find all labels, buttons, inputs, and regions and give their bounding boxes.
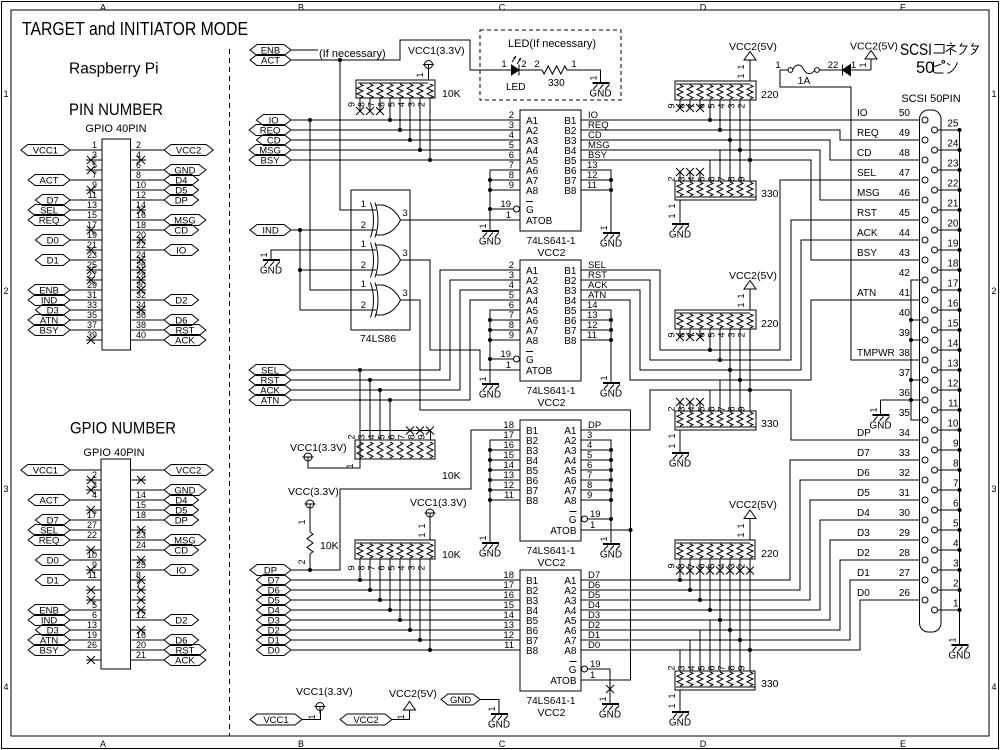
resistor R1 10K [297,510,313,570]
svg-text:2: 2 [667,176,677,181]
J2 row 20 right ACK [131,650,206,666]
J1 pin 28 NC [131,270,147,284]
svg-text:48: 48 [899,148,911,159]
svg-text:G: G [569,515,577,526]
svg-text:9: 9 [347,102,357,107]
RN5 NC pins 2 3 4 [667,168,705,182]
power VCC1(3.3V) label (RN3) [410,497,467,509]
svg-text:1: 1 [396,714,406,719]
wire RST to U2 A2 [291,280,520,380]
svg-text:330: 330 [761,188,779,200]
svg-text:6: 6 [707,176,717,181]
svg-text:1: 1 [736,302,746,307]
wire D0 to SCSI pin26 [581,600,920,650]
svg-text:50: 50 [899,108,911,119]
junction D2 pull-up [408,628,412,632]
label 330 (RN5) [761,188,779,200]
svg-text:ACK: ACK [175,335,195,346]
svg-text:10: 10 [136,180,146,190]
svg-text:220: 220 [761,89,779,101]
junction D0 pull-up [428,648,432,652]
J1 pin 21 NC [86,240,102,254]
label U2 B4 net ATN [588,290,606,301]
svg-text:23: 23 [87,250,97,260]
wire ACT to junction [291,59,340,61]
svg-text:20: 20 [136,640,146,650]
svg-text:REQ: REQ [39,535,60,546]
RN9 pins to D rows [667,580,751,671]
power VCC2 symbol (RN4) [744,52,756,61]
svg-text:7: 7 [136,580,141,590]
RN5 pins 5-9 to rows [697,120,751,182]
svg-text:9: 9 [737,176,747,181]
svg-text:2: 2 [136,140,141,150]
svg-text:ACK: ACK [857,228,878,239]
svg-text:6: 6 [377,565,387,570]
svg-text:9: 9 [509,330,514,341]
svg-text:37: 37 [87,320,97,330]
ground (LED) [589,75,612,99]
svg-text:38: 38 [899,348,911,359]
svg-text:14: 14 [947,339,959,350]
svg-text:B: B [298,3,304,13]
wire U4 G with cut [588,669,615,704]
wire ACK to U2 A3 [291,290,520,390]
svg-text:1: 1 [506,360,511,371]
tag D0 [256,645,291,657]
wire VCC2 to RN6 pin1 [736,289,750,310]
svg-text:38: 38 [136,320,146,330]
wire IO to SCSI pin50 [581,119,920,121]
LED dashed box [480,30,621,100]
connector J2 GPIO 40PIN body [101,459,131,669]
J2 row 11 right IO [131,560,199,576]
svg-text:220: 220 [761,318,779,330]
junction ATN pull-up [388,398,392,402]
tag D7 [256,575,291,587]
fuse F1 1A [780,65,842,74]
label SCSI connector title [900,41,932,59]
svg-text:18: 18 [136,220,146,230]
svg-text:D: D [700,739,707,749]
tag D2 [256,625,291,637]
svg-text:1: 1 [571,59,576,70]
junction D3 pull-up [398,618,402,622]
svg-text:7: 7 [367,565,377,570]
svg-text:1: 1 [667,213,677,218]
junction DP pull-up [308,568,312,572]
svg-text:4: 4 [717,103,727,108]
wire IND to gate1 [291,229,376,231]
svg-text:6: 6 [92,610,97,620]
wire D7 row [291,579,520,581]
wire CD row [291,139,520,141]
wire R to GND [567,70,601,83]
svg-text:1: 1 [259,252,269,257]
J1 pin 26 NC [131,260,147,274]
svg-text:20: 20 [136,230,146,240]
svg-text:B8: B8 [564,336,577,347]
svg-text:9: 9 [667,563,677,568]
svg-text:4: 4 [92,490,97,500]
svg-text:2: 2 [297,559,307,564]
wire GND to gate2 input1 [271,250,376,260]
frame row label 3 [3,484,996,494]
svg-text:ACT: ACT [40,175,59,186]
resistor network RN3 10K body [355,540,435,559]
svg-text:BSY: BSY [40,645,60,656]
svg-text:47: 47 [899,168,911,179]
resistor R 330 (LED) [542,66,567,74]
svg-text:6: 6 [953,499,959,510]
svg-text:74LS641-1: 74LS641-1 [527,696,576,707]
svg-text:VCC2: VCC2 [176,145,201,156]
label 330 (RN9) [761,678,779,690]
svg-text:8: 8 [953,459,959,470]
svg-text:26: 26 [87,640,97,650]
tag IND [250,225,291,237]
junction IO/XOR [308,118,312,122]
svg-text:LED: LED [506,82,525,93]
svg-text:VCC2: VCC2 [537,707,565,719]
svg-text:8: 8 [357,102,367,107]
tag CD [256,135,291,147]
power VCC2(5V) label (RN8) [729,499,777,511]
J2 row 4 left ACT [28,490,101,506]
svg-text:1: 1 [598,696,608,701]
junctions RN8 [678,578,752,652]
svg-text:9: 9 [737,665,747,670]
CN1 right pins to GND bus [938,119,962,646]
label LED(If necessary) [508,38,596,50]
svg-text:9: 9 [347,565,357,570]
power VCC2(5V) label (RN4) [729,41,777,53]
svg-text:VCC(3.3V): VCC(3.3V) [288,486,339,498]
svg-text:1: 1 [948,637,958,642]
svg-text:1: 1 [307,714,317,719]
svg-text:22: 22 [136,240,146,250]
label SCSI connector title katakana [934,43,979,55]
svg-text:(If necessary): (If necessary) [319,48,386,60]
label GPIO 40PIN (bottom) [83,447,144,459]
svg-text:8: 8 [677,563,687,568]
J2 row 9 right CD [131,540,199,556]
svg-text:37: 37 [899,368,911,379]
svg-text:GND: GND [479,237,501,248]
J2 row 9 left [86,546,101,554]
wire LED to R [519,69,542,71]
svg-text:74LS641-1: 74LS641-1 [527,386,576,397]
RN1 NC pins 9 8 7 [347,98,385,115]
svg-text:BSY: BSY [261,155,281,166]
junction D6 pull-up [368,588,372,592]
svg-text:32: 32 [136,290,146,300]
svg-text:34: 34 [136,300,146,310]
svg-text:3: 3 [727,103,737,108]
svg-text:4: 4 [687,665,697,670]
svg-text:1: 1 [667,433,677,438]
svg-text:7: 7 [92,170,97,180]
J1 pin 22 IO [131,240,199,256]
tag GND (bottom) [441,694,480,706]
wire D5 row [291,599,520,601]
svg-text:13: 13 [947,359,959,370]
svg-text:9: 9 [667,103,677,108]
svg-text:4: 4 [953,539,959,550]
svg-text:15: 15 [947,319,959,330]
svg-text:9: 9 [953,439,959,450]
svg-text:1: 1 [92,140,97,150]
svg-text:D2: D2 [175,615,187,626]
label LED [506,82,525,93]
J1 pin 12 DP [131,190,199,206]
svg-text:13: 13 [87,200,97,210]
svg-text:VCC2(5V): VCC2(5V) [850,41,898,53]
J2 row 12 right [131,570,147,584]
svg-text:A8: A8 [564,646,577,657]
wire D6 to SCSI pin32 [581,480,920,590]
svg-text:VCC1(3.3V): VCC1(3.3V) [296,686,353,698]
svg-text:14: 14 [136,200,146,210]
svg-text:A8: A8 [526,186,539,197]
label 220 (RN4) [761,89,779,101]
svg-text:GND: GND [450,695,471,706]
power VCC1(3.3V) label (RN2) [290,442,347,454]
svg-text:8: 8 [357,565,367,570]
svg-text:7: 7 [397,434,407,439]
svg-text:10K: 10K [320,540,339,552]
svg-text:33: 33 [899,448,911,459]
svg-text:11: 11 [504,490,514,501]
IC U3 74LS641-1 body [503,420,600,569]
J2 row 15 right [131,606,147,614]
svg-text:2: 2 [737,332,747,337]
svg-text:12: 12 [136,190,146,200]
label U4 A8 net D0 [588,640,600,651]
svg-text:E: E [900,739,906,749]
J2 row 3 right GND [131,485,206,497]
IC 74LS86 body [351,190,410,330]
label 10K (RN3) [442,549,461,561]
label R330 pin1 [571,59,576,70]
svg-text:50: 50 [916,59,934,77]
label U1 B1 net IO [588,110,598,121]
label 1A [798,75,811,87]
svg-text:42: 42 [899,268,911,279]
svg-text:IO: IO [176,565,186,576]
svg-text:1: 1 [361,239,366,250]
ground (U2 left) [478,376,501,400]
J2 row 1 left VCC1 [21,465,101,477]
svg-text:ATN: ATN [857,288,876,299]
frame row label 4 [3,682,996,692]
svg-text:2: 2 [361,260,366,271]
J1 pin 16 MSG [131,210,206,226]
svg-text:B: B [298,739,304,749]
svg-text:5: 5 [707,103,717,108]
svg-text:B8: B8 [526,646,539,657]
label R330 pin2 [534,59,539,70]
junction D5 pull-up [378,598,382,602]
wire DP net [291,430,520,570]
svg-text:1: 1 [991,89,996,99]
svg-text:10: 10 [87,550,97,560]
J1 pin 23 D1 [35,250,102,266]
svg-text:ATN: ATN [588,290,606,301]
frame column label D [700,3,707,750]
svg-text:7: 7 [717,406,727,411]
svg-text:5: 5 [377,434,387,439]
J2 row 17 right [131,626,147,634]
RN4 pins 6-2 to rows [697,100,751,160]
svg-text:6: 6 [377,102,387,107]
wire REQ to SCSI pin49 [581,130,920,140]
svg-text:VCC2: VCC2 [537,247,565,259]
J2 row 5 left [86,506,101,514]
svg-text:330: 330 [761,678,779,690]
svg-text:A: A [100,3,106,13]
label 330 (LED) [548,78,565,89]
J2 row 14 left [86,596,101,604]
resistor network RN8 220 body [675,540,755,559]
svg-text:36: 36 [136,310,146,320]
wire ATN to SCSI pin41 [581,300,920,380]
svg-text:45: 45 [899,208,911,219]
svg-text:4: 4 [367,434,377,439]
J1 pin 3 NC [86,150,102,164]
J2 row 14 right [131,596,147,604]
wire U1 A6-A8,G to GND [488,170,520,231]
svg-text:GND: GND [600,550,622,561]
wire DP to SCSI pin34 [581,390,920,440]
svg-text:11: 11 [88,190,97,200]
svg-text:1: 1 [869,407,879,412]
wire ATN to U2 A4 [291,300,520,400]
label diode pin1 [851,60,856,71]
svg-text:9: 9 [417,434,427,439]
frame column label A [100,3,106,750]
svg-text:8: 8 [136,570,141,580]
svg-text:25: 25 [136,560,146,570]
svg-text:6: 6 [697,332,707,337]
label (If necessary) [319,48,386,60]
svg-text:D3: D3 [857,528,870,539]
power VCC2(5V) (bottom) [389,688,437,720]
svg-text:24: 24 [136,540,146,550]
svg-text:8: 8 [677,332,687,337]
svg-text:3: 3 [403,288,408,299]
svg-text:31: 31 [899,488,911,499]
label 220 (RN8) [761,548,779,560]
svg-text:VCC2: VCC2 [537,397,565,409]
svg-text:1: 1 [599,375,609,380]
svg-text:2: 2 [534,59,539,70]
svg-text:GPIO 40PIN: GPIO 40PIN [83,447,144,459]
svg-text:19: 19 [87,630,97,640]
J1 pin 11 D7 [35,190,102,206]
svg-text:3: 3 [403,208,408,219]
label U4 A1 net D7 [588,570,600,581]
svg-text:GND: GND [599,710,621,721]
svg-text:GND: GND [589,89,611,100]
J2 row 13 left [86,586,101,594]
svg-text:VCC1(3.3V): VCC1(3.3V) [410,497,467,509]
svg-text:G: G [526,205,534,216]
junction D1 pull-up [418,638,422,642]
svg-text:35: 35 [87,310,97,320]
CN1 left pin labels [857,108,910,599]
svg-text:1: 1 [590,670,595,681]
J2 row 2 right [131,476,147,484]
svg-text:26: 26 [136,260,146,270]
svg-text:1: 1 [667,203,677,208]
connector J1 GPIO 40PIN body [102,139,131,350]
ground (RN5) [669,224,691,241]
XOR gate B (74LS86) [361,239,408,278]
svg-text:24: 24 [136,250,146,260]
tag D5 [256,595,291,607]
svg-text:ATOB: ATOB [550,676,577,687]
wire GND tag [480,700,499,715]
ground (U3 right) [599,536,622,560]
wire D2 to SCSI pin28 [581,560,920,630]
svg-text:3: 3 [403,248,408,259]
connector CN1 SCSI body [920,110,942,632]
svg-text:7: 7 [717,665,727,670]
svg-text:5: 5 [697,176,707,181]
svg-text:11: 11 [587,180,597,191]
J2 row 7 right [131,526,147,534]
svg-text:13: 13 [87,620,97,630]
svg-text:1: 1 [589,75,599,80]
svg-text:7: 7 [953,479,959,490]
svg-text:19: 19 [500,349,511,360]
junction U3 ATOB [629,528,633,532]
tag D6 [256,585,291,597]
svg-text:1: 1 [297,519,307,524]
svg-text:ACT: ACT [261,55,280,66]
svg-text:32: 32 [899,468,911,479]
svg-text:A8: A8 [564,496,577,507]
svg-text:25: 25 [947,119,959,130]
J1 pin 8 D4 [131,170,199,186]
power VCC2(5V) (diode) [850,41,898,71]
svg-text:2: 2 [347,434,357,439]
frame row label 2 [3,286,996,296]
svg-text:8: 8 [727,176,737,181]
svg-text:26: 26 [899,588,911,599]
RN7 pins 5-9 to rows [697,350,751,412]
svg-text:8: 8 [727,665,737,670]
ground (CN1 35/36) [869,400,892,432]
tag SEL [249,365,291,377]
power VCC2 symbol (RN6) [744,281,756,290]
J1 pin 5 NC [86,160,102,174]
tag ACT [250,55,291,67]
svg-text:3: 3 [953,559,959,570]
svg-text:D5: D5 [857,488,870,499]
svg-text:1: 1 [599,536,609,541]
svg-text:5: 5 [92,600,97,610]
wire D3 to SCSI pin29 [581,540,920,620]
J1 pin 34 NC [131,300,147,314]
svg-text:D: D [700,3,707,13]
label U4 A4 net D4 [588,600,600,611]
wire U3 B2-B8 to GND [488,440,520,543]
svg-text:D0: D0 [268,645,280,656]
svg-text:VCC2: VCC2 [537,557,565,569]
XOR gate B output to U2 ATOB [401,260,521,370]
